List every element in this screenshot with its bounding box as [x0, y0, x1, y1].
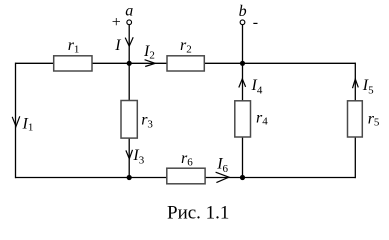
svg-text:b: b: [239, 3, 247, 20]
arrow current I4 (up): [239, 79, 246, 88]
junction node bottom-middle: [127, 175, 132, 180]
svg-text:a: a: [125, 3, 133, 20]
wire left branch: [15, 63, 17, 179]
terminal a: [127, 20, 132, 25]
arrow current I6 (right): [216, 172, 229, 182]
resistor R4: [235, 101, 251, 137]
resistor R5: [348, 101, 363, 137]
wire top rail: [16, 62, 356, 64]
resistor R6: [167, 168, 205, 184]
resistor R1: [54, 56, 92, 71]
svg-text:Рис. 1.1: Рис. 1.1: [167, 203, 229, 224]
wire bottom rail: [16, 177, 356, 179]
wire right branch: [354, 63, 356, 179]
arrow current I5 (up): [353, 79, 359, 88]
svg-text:I: I: [114, 37, 121, 54]
junction node bottom-right: [240, 175, 245, 180]
wire r4 branch: [242, 63, 244, 177]
arrow current I1 (down): [12, 116, 20, 126]
svg-text:+: +: [112, 14, 121, 31]
resistor R3: [121, 101, 137, 139]
wire terminal a stem: [128, 25, 130, 64]
arrow current I2 (right): [145, 60, 156, 67]
wire middle branch (r3): [128, 63, 130, 177]
terminal b: [240, 20, 245, 25]
wire terminal b stem: [242, 25, 244, 64]
resistor R2: [167, 56, 204, 71]
arrow current I3 (down): [126, 150, 133, 159]
arrow current I (down): [125, 37, 133, 46]
svg-text:-: -: [253, 14, 258, 31]
junction node top-middle: [127, 61, 132, 66]
junction node top-right: [240, 61, 245, 66]
